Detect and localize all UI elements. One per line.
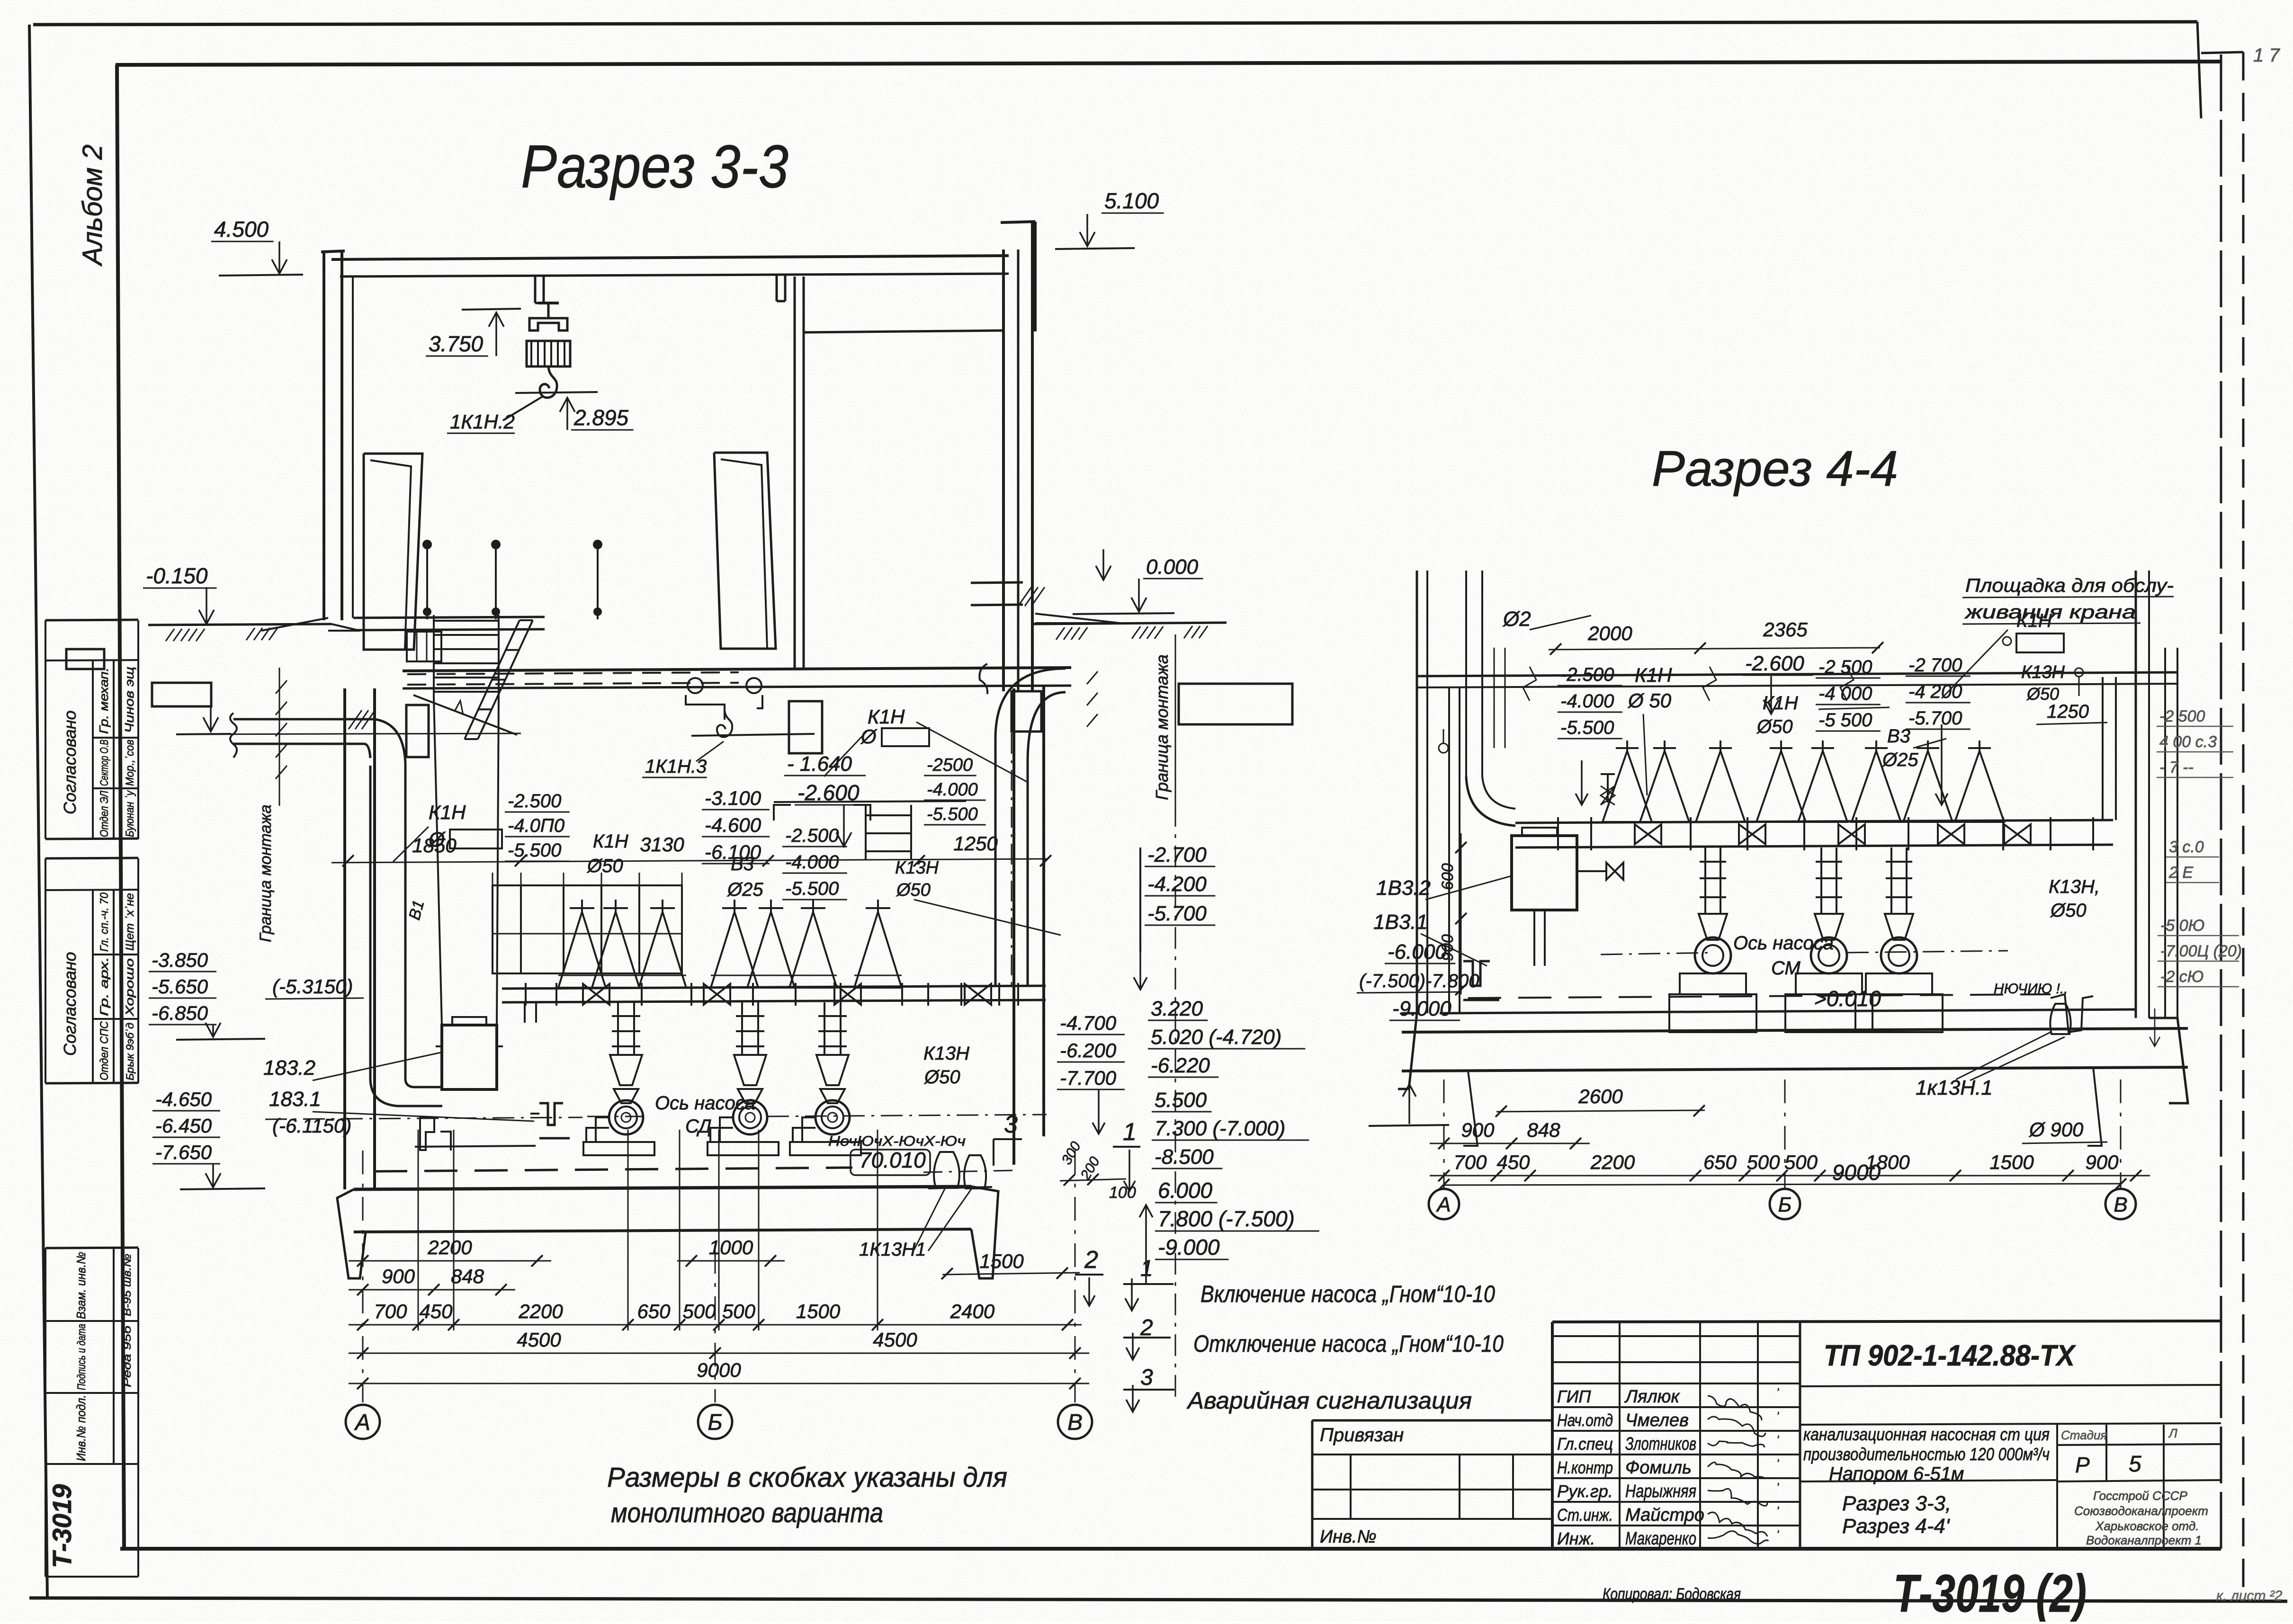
svg-text:450: 450	[419, 1300, 453, 1322]
svg-text:-2.500: -2.500	[785, 825, 839, 846]
svg-text:К1Н: К1Н	[2016, 610, 2052, 631]
svg-text:Копировал: Бодовская: Копировал: Бодовская	[1603, 1585, 1741, 1603]
svg-text:Л: Л	[2168, 1426, 2177, 1440]
svg-text:3130: 3130	[640, 833, 684, 856]
svg-text:Граница монтажа: Граница монтажа	[1152, 654, 1172, 800]
svg-text:Ø 50: Ø 50	[1627, 689, 1672, 712]
svg-text:-2.700: -2.700	[1147, 843, 1207, 866]
svg-text:500: 500	[1784, 1151, 1818, 1173]
svg-text:Ø2: Ø2	[1502, 607, 1531, 631]
svg-text:-6.000: -6.000	[1388, 940, 1447, 964]
svg-text:Майстро: Майстро	[1625, 1505, 1704, 1525]
svg-text:Ø50: Ø50	[923, 1067, 960, 1088]
svg-text:Альбом 2: Альбом 2	[77, 144, 108, 267]
svg-text:Инж.: Инж.	[1557, 1529, 1595, 1548]
svg-text:3: 3	[1140, 1365, 1153, 1390]
svg-text:900: 900	[2085, 1151, 2119, 1173]
svg-text:1250: 1250	[2047, 701, 2089, 722]
svg-text:1250: 1250	[953, 832, 998, 855]
svg-text:1500: 1500	[979, 1250, 1024, 1272]
svg-text:-4.000: -4.000	[785, 852, 839, 873]
svg-text:1к13Н.1: 1к13Н.1	[1916, 1076, 1993, 1099]
svg-text:-5.700: -5.700	[1908, 708, 1962, 729]
svg-text:848: 848	[451, 1265, 484, 1287]
svg-text:-2 500: -2 500	[2159, 707, 2205, 725]
svg-text:100: 100	[1109, 1184, 1136, 1202]
svg-text:Согласовано: Согласовано	[60, 952, 80, 1056]
svg-text:-4.600: -4.600	[705, 814, 761, 836]
svg-text:В3: В3	[1887, 726, 1910, 747]
svg-text:1В3.1: 1В3.1	[1373, 910, 1428, 934]
svg-text:ʾ: ʾ	[1775, 1434, 1780, 1449]
svg-text:ʾ: ʾ	[1775, 1528, 1780, 1544]
svg-text:Рук.гр.: Рук.гр.	[1557, 1481, 1613, 1501]
svg-text:5.500: 5.500	[1155, 1089, 1207, 1112]
svg-text:-9.000: -9.000	[1158, 1235, 1220, 1259]
svg-text:Гр. арх.: Гр. арх.	[98, 957, 111, 1016]
svg-text:>0.010: >0.010	[1814, 986, 1881, 1011]
svg-text:Щет ʾхʾне: Щет ʾхʾне	[124, 893, 136, 951]
svg-text:Ø25: Ø25	[1881, 750, 1918, 770]
svg-text:ʾ: ʾ	[1775, 1410, 1780, 1426]
svg-text:Госстрой СССР: Госстрой СССР	[2093, 1489, 2187, 1503]
svg-text:Ø50: Ø50	[1756, 716, 1793, 737]
svg-text:3.220: 3.220	[1151, 997, 1203, 1020]
svg-text:183.1: 183.1	[269, 1088, 321, 1111]
svg-text:А: А	[354, 1410, 370, 1435]
svg-text:5.100: 5.100	[1104, 188, 1159, 213]
svg-text:-2 сЮ: -2 сЮ	[2160, 968, 2203, 986]
svg-text:Привязан: Привязан	[1320, 1425, 1404, 1446]
svg-text:-4.200: -4.200	[1147, 873, 1207, 896]
svg-text:-7.00Ц (20): -7.00Ц (20)	[2160, 942, 2242, 960]
svg-text:-4.650: -4.650	[155, 1088, 212, 1110]
svg-text:Водоканалпроект 1: Водоканалпроект 1	[2086, 1533, 2202, 1547]
svg-text:Аварийная сигнализация: Аварийная сигнализация	[1186, 1387, 1472, 1414]
svg-text:СМ: СМ	[1771, 958, 1800, 979]
svg-text:-6.220: -6.220	[1151, 1054, 1210, 1077]
svg-text:9000: 9000	[697, 1359, 741, 1381]
svg-text:Макаренко: Макаренко	[1625, 1529, 1696, 1549]
svg-text:Разрез 4-4': Разрез 4-4'	[1842, 1515, 1950, 1538]
svg-text:Стадия: Стадия	[2061, 1428, 2107, 1442]
svg-text:-4.0П0: -4.0П0	[508, 815, 564, 836]
svg-text:-5 500: -5 500	[1818, 710, 1872, 731]
svg-text:-5.650: -5.650	[152, 975, 208, 998]
svg-text:К13Н: К13Н	[2021, 662, 2065, 682]
svg-text:Ст.инж.: Ст.инж.	[1557, 1505, 1613, 1525]
svg-text:7.800 (-7.500): 7.800 (-7.500)	[1158, 1206, 1295, 1231]
svg-text:Чинов эщ: Чинов эщ	[122, 667, 136, 733]
svg-text:канализационная насосная ст ц: канализационная насосная ст ция	[1803, 1425, 2050, 1444]
svg-text:К1Н: К1Н	[593, 831, 628, 852]
svg-text:9000: 9000	[1832, 1160, 1881, 1185]
svg-text:-2500: -2500	[927, 755, 973, 775]
svg-text:К13Н,: К13Н,	[2049, 876, 2100, 897]
svg-text:2.895: 2.895	[573, 405, 629, 430]
svg-text:ʾ: ʾ	[1775, 1457, 1780, 1473]
svg-text:Ось насоса: Ось насоса	[1733, 933, 1834, 954]
svg-text:Инв.№: Инв.№	[1320, 1527, 1377, 1547]
svg-text:СД: СД	[685, 1116, 712, 1137]
svg-text:848: 848	[1527, 1119, 1560, 1141]
svg-text:2200: 2200	[1590, 1151, 1635, 1173]
svg-text:-2.500: -2.500	[1560, 664, 1614, 685]
svg-text:ʾ: ʾ	[1775, 1505, 1780, 1520]
svg-text:183.2: 183.2	[263, 1056, 315, 1080]
svg-text:-5.700: -5.700	[1147, 902, 1207, 925]
svg-text:Разрез 3-3,: Разрез 3-3,	[1842, 1492, 1951, 1515]
svg-text:-7.700: -7.700	[1060, 1067, 1117, 1089]
svg-text:3.750: 3.750	[429, 331, 484, 356]
svg-text:0.000: 0.000	[1146, 555, 1199, 579]
svg-text:Ø25: Ø25	[726, 879, 763, 900]
svg-text:Злотников: Злотников	[1625, 1434, 1696, 1454]
svg-text:700: 700	[374, 1300, 407, 1322]
svg-text:Лялюк: Лялюк	[1624, 1387, 1680, 1407]
svg-text:1К1Н.2: 1К1Н.2	[450, 410, 515, 433]
svg-text:(-5.3150): (-5.3150)	[272, 975, 353, 998]
svg-text:Ø50: Ø50	[2050, 900, 2087, 921]
svg-text:500: 500	[682, 1300, 716, 1322]
svg-text:600: 600	[1439, 863, 1457, 890]
svg-text:Ø50: Ø50	[586, 856, 623, 876]
svg-text:1500: 1500	[1989, 1151, 2034, 1173]
svg-text:Площадка для обслу-: Площадка для обслу-	[1965, 575, 2174, 596]
svg-text:Т-3019: Т-3019	[47, 1484, 77, 1568]
svg-text:4.500: 4.500	[214, 217, 269, 241]
svg-text:450: 450	[1496, 1151, 1530, 1173]
svg-text:Гл.спец: Гл.спец	[1557, 1434, 1613, 1454]
svg-text:2000: 2000	[1587, 622, 1632, 644]
svg-text:-5.500: -5.500	[508, 840, 561, 861]
svg-text:-3.850: -3.850	[152, 949, 208, 971]
svg-text:2200: 2200	[518, 1300, 563, 1322]
svg-text:ʾ: ʾ	[1775, 1481, 1780, 1497]
svg-text:Разрез 3-3: Разрез 3-3	[521, 133, 788, 201]
svg-text:-3.100: -3.100	[705, 787, 761, 809]
svg-text:В: В	[2114, 1193, 2127, 1216]
svg-text:-2.600: -2.600	[1745, 652, 1804, 675]
svg-text:К1Н: К1Н	[1635, 664, 1672, 686]
svg-text:Сектор О.В: Сектор О.В	[98, 740, 111, 786]
svg-text:-9.000: -9.000	[1392, 997, 1451, 1020]
svg-text:Ø 900: Ø 900	[2028, 1118, 2084, 1141]
svg-text:1850: 1850	[412, 834, 457, 857]
svg-text:-6.450: -6.450	[155, 1115, 212, 1137]
svg-text:900: 900	[1461, 1119, 1495, 1141]
svg-text:В-95 шв.№: В-95 шв.№	[121, 1254, 133, 1316]
svg-text:650: 650	[1703, 1151, 1737, 1173]
svg-text:ГИП: ГИП	[1557, 1387, 1591, 1406]
svg-text:Отключение насоса „Гном“10-10: Отключение насоса „Гном“10-10	[1193, 1330, 1504, 1357]
svg-text:ТП 902-1-142.88-ТХ: ТП 902-1-142.88-ТХ	[1824, 1339, 2076, 1372]
svg-text:650: 650	[637, 1300, 671, 1322]
svg-text:900: 900	[382, 1265, 415, 1287]
svg-text:3 с.0: 3 с.0	[2169, 838, 2204, 856]
svg-text:Харьковское отд.: Харьковское отд.	[2095, 1519, 2199, 1533]
svg-text:Разрез 4-4: Разрез 4-4	[1652, 441, 1898, 497]
svg-text:-2.500: -2.500	[508, 791, 561, 812]
svg-text:-0.150: -0.150	[146, 563, 208, 588]
svg-text:Б: Б	[1778, 1193, 1792, 1216]
svg-text:2400: 2400	[950, 1300, 995, 1322]
svg-text:Мор.,ʾсов: Мор.,ʾсов	[124, 740, 136, 786]
svg-text:Инв.№ подл.: Инв.№ подл.	[74, 1395, 88, 1461]
svg-text:70.010: 70.010	[859, 1148, 926, 1172]
svg-text:-2 700: -2 700	[1908, 655, 1962, 676]
svg-text:3: 3	[1004, 1111, 1018, 1138]
svg-text:-5.500: -5.500	[927, 804, 978, 824]
svg-text:5.020 (-4.720): 5.020 (-4.720)	[1151, 1026, 1281, 1049]
svg-text:500: 500	[1747, 1151, 1780, 1173]
svg-text:4 00 с.3: 4 00 с.3	[2159, 733, 2217, 751]
svg-text:Подпись и дата: Подпись и дата	[75, 1324, 88, 1390]
svg-text:7.300 (-7.000): 7.300 (-7.000)	[1155, 1117, 1285, 1140]
svg-text:НочЮчХ-ЮчХ-Юч: НочЮчХ-ЮчХ-Юч	[828, 1133, 966, 1149]
svg-text:Союзводоканалпроект: Союзводоканалпроект	[2074, 1504, 2208, 1518]
svg-text:В3: В3	[731, 854, 754, 874]
svg-text:2 Е: 2 Е	[2168, 864, 2193, 882]
svg-text:Граница монтажа: Граница монтажа	[257, 804, 275, 942]
svg-text:Ø50: Ø50	[896, 880, 931, 900]
svg-text:Буюнан ʾу: Буюнан ʾу	[124, 790, 136, 837]
svg-text:Взам. инв.№: Взам. инв.№	[74, 1252, 88, 1319]
svg-text:к. лист ²2: к. лист ²2	[2216, 1588, 2283, 1604]
svg-text:Фомиль: Фомиль	[1625, 1458, 1692, 1478]
svg-text:К1Н: К1Н	[1763, 693, 1798, 714]
svg-text:Нач.отд: Нач.отд	[1557, 1410, 1613, 1430]
svg-text:-6.200: -6.200	[1060, 1039, 1117, 1062]
svg-text:Т-3019 (2): Т-3019 (2)	[1893, 1564, 2087, 1622]
svg-text:2: 2	[1084, 1246, 1098, 1274]
svg-text:(-6.1150): (-6.1150)	[272, 1115, 351, 1137]
svg-text:1В3.2: 1В3.2	[1376, 876, 1431, 900]
svg-text:5: 5	[2129, 1452, 2141, 1477]
svg-text:К13Н: К13Н	[895, 858, 939, 878]
svg-text:-4.000: -4.000	[1560, 691, 1614, 712]
svg-text:Р: Р	[2075, 1453, 2090, 1477]
svg-text:-5 0Ю: -5 0Ю	[2160, 917, 2204, 935]
svg-text:К1Н: К1Н	[429, 801, 466, 823]
svg-text:-8.500: -8.500	[1155, 1145, 1214, 1169]
svg-text:-4.000: -4.000	[927, 780, 978, 800]
svg-text:4500: 4500	[873, 1329, 917, 1351]
svg-text:Размеры в скобках указаны: Размеры в скобках указаны для	[607, 1462, 1007, 1493]
svg-text:Гл. сп.-ч. 70: Гл. сп.-ч. 70	[98, 892, 111, 952]
svg-text:500: 500	[722, 1300, 756, 1322]
svg-text:В: В	[1067, 1410, 1083, 1435]
svg-text:-7.650: -7.650	[155, 1141, 212, 1163]
svg-text:монолитного варианта: монолитного варианта	[611, 1498, 883, 1528]
svg-text:Отдел ЭЛ: Отдел ЭЛ	[98, 791, 111, 837]
svg-text:-6.850: -6.850	[152, 1002, 208, 1024]
svg-text:- 7 --: - 7 --	[2159, 758, 2194, 776]
svg-text:Ø50: Ø50	[2026, 684, 2059, 704]
svg-text:ʾ: ʾ	[1775, 1386, 1780, 1402]
svg-text:1: 1	[1123, 1118, 1137, 1146]
svg-text:1К1Н.3: 1К1Н.3	[645, 756, 707, 777]
svg-text:6.000: 6.000	[1158, 1178, 1213, 1203]
svg-text:Чмелев: Чмелев	[1625, 1410, 1689, 1430]
svg-text:1: 1	[1140, 1256, 1153, 1281]
svg-text:А: А	[1435, 1193, 1451, 1216]
svg-text:- 1.640: - 1.640	[787, 752, 852, 776]
svg-text:1К13Н1: 1К13Н1	[859, 1239, 926, 1260]
svg-text:Б: Б	[708, 1410, 722, 1435]
svg-text:-4.700: -4.700	[1060, 1012, 1117, 1034]
svg-text:К1Н: К1Н	[868, 705, 905, 728]
svg-text:Напором 6-51м: Напором 6-51м	[1829, 1463, 1964, 1484]
svg-text:Гр. мехап.: Гр. мехап.	[97, 668, 111, 734]
svg-text:НЮЧИЮ !..: НЮЧИЮ !..	[1994, 981, 2068, 997]
svg-text:К13Н: К13Н	[923, 1043, 969, 1064]
svg-text:4500: 4500	[517, 1329, 561, 1351]
svg-text:-4 200: -4 200	[1908, 681, 1962, 702]
svg-text:Нарыжняя: Нарыжняя	[1625, 1481, 1696, 1501]
svg-text:2365: 2365	[1763, 618, 1808, 641]
svg-text:2600: 2600	[1578, 1085, 1623, 1107]
svg-text:Согласовано: Согласовано	[60, 710, 80, 814]
svg-text:Включение насоса „Гном“10-10: Включение насоса „Гном“10-10	[1200, 1281, 1495, 1307]
svg-text:1000: 1000	[709, 1236, 753, 1258]
svg-text:Реда 95б: Реда 95б	[121, 1325, 133, 1387]
svg-text:Хорошо: Хорошо	[124, 958, 136, 1017]
svg-text:Отдел СПС: Отдел СПС	[98, 1021, 111, 1080]
svg-text:-4 000: -4 000	[1818, 683, 1872, 704]
svg-text:1 7: 1 7	[2253, 45, 2280, 66]
svg-text:2200: 2200	[427, 1236, 472, 1258]
svg-text:-5.500: -5.500	[1560, 717, 1614, 738]
svg-text:-5.500: -5.500	[785, 878, 839, 899]
svg-text:1500: 1500	[796, 1300, 841, 1322]
svg-text:900: 900	[1439, 934, 1457, 961]
svg-text:Ось насоса: Ось насоса	[655, 1093, 755, 1114]
svg-text:-2 500: -2 500	[1818, 657, 1872, 678]
svg-text:Н.контр: Н.контр	[1557, 1458, 1613, 1477]
svg-text:700: 700	[1453, 1151, 1487, 1173]
svg-text:Брык 9эбʾд: Брык 9эбʾд	[124, 1023, 136, 1080]
svg-text:производительностью 120 000м³: производительностью 120 000м³/ч	[1803, 1445, 2050, 1464]
